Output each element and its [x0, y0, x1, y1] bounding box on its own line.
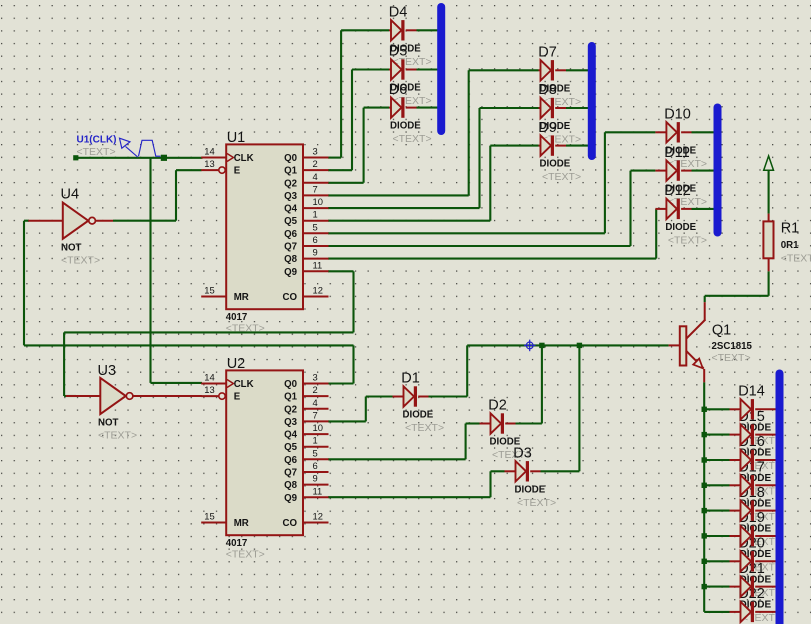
svg-text:<TEXT>: <TEXT> [226, 549, 265, 561]
svg-text:9: 9 [313, 247, 318, 258]
svg-text:13: 13 [204, 158, 214, 169]
svg-text:<TEXT>: <TEXT> [405, 422, 444, 434]
svg-text:DIODE: DIODE [665, 222, 696, 233]
svg-text:10: 10 [313, 422, 323, 433]
svg-text:D10: D10 [664, 107, 691, 123]
svg-text:6: 6 [313, 460, 318, 471]
svg-text:1: 1 [313, 435, 318, 446]
svg-text:13: 13 [204, 384, 214, 395]
svg-text:D4: D4 [389, 5, 408, 21]
svg-text:Q5: Q5 [284, 216, 298, 227]
svg-text:14: 14 [204, 146, 214, 157]
svg-text:Q7: Q7 [284, 468, 297, 479]
svg-text:D14: D14 [738, 384, 765, 400]
svg-text:MR: MR [234, 292, 249, 303]
svg-text:D6: D6 [389, 82, 408, 98]
svg-text:Q4: Q4 [284, 204, 298, 215]
svg-text:U1(CLK): U1(CLK) [77, 135, 117, 146]
svg-text:3: 3 [313, 372, 318, 383]
svg-text:<TEXT>: <TEXT> [98, 430, 137, 442]
svg-text:11: 11 [313, 259, 323, 270]
svg-text:<TEXT>: <TEXT> [226, 323, 265, 335]
svg-text:DIODE: DIODE [390, 121, 421, 132]
svg-text:<TEXT>: <TEXT> [61, 255, 100, 267]
svg-text:<TEXT>: <TEXT> [77, 146, 116, 158]
svg-text:12: 12 [313, 285, 323, 296]
svg-text:Q0: Q0 [284, 379, 297, 390]
svg-text:Q1: Q1 [712, 323, 731, 339]
svg-text:D11: D11 [664, 145, 690, 161]
svg-text:Q1: Q1 [284, 166, 298, 177]
svg-text:U3: U3 [98, 363, 117, 379]
svg-text:4017: 4017 [226, 538, 248, 549]
svg-text:D1: D1 [401, 371, 420, 387]
svg-text:9: 9 [313, 473, 318, 484]
svg-text:5: 5 [313, 221, 318, 232]
svg-text:1: 1 [313, 209, 318, 220]
svg-text:12: 12 [313, 511, 323, 522]
svg-text:4: 4 [313, 171, 318, 182]
svg-text:D2: D2 [488, 398, 507, 414]
svg-text:14: 14 [204, 372, 214, 383]
svg-text:10: 10 [313, 196, 323, 207]
svg-text:4017: 4017 [226, 312, 248, 323]
svg-text:NOT: NOT [61, 243, 82, 254]
svg-text:MR: MR [234, 518, 249, 529]
svg-text:D3: D3 [513, 446, 532, 462]
svg-text:15: 15 [204, 285, 214, 296]
svg-text:7: 7 [313, 409, 318, 420]
svg-text:DIODE: DIODE [515, 484, 546, 495]
svg-text:DIODE: DIODE [403, 410, 434, 421]
svg-text:NOT: NOT [98, 418, 119, 429]
svg-text:Q3: Q3 [284, 191, 298, 202]
svg-text:15: 15 [204, 511, 214, 522]
svg-text:CO: CO [282, 518, 297, 529]
svg-text:DIODE: DIODE [540, 159, 571, 170]
svg-text:<TEXT>: <TEXT> [393, 133, 432, 145]
svg-text:E: E [234, 392, 241, 403]
svg-text:<TEXT>: <TEXT> [781, 253, 811, 265]
svg-text:Q4: Q4 [284, 430, 298, 441]
svg-text:2SC1815: 2SC1815 [712, 341, 753, 352]
svg-text:D12: D12 [664, 183, 691, 199]
svg-text:D5: D5 [389, 44, 408, 60]
svg-text:2: 2 [313, 384, 318, 395]
svg-text:Q2: Q2 [284, 404, 297, 415]
svg-text:Q2: Q2 [284, 178, 297, 189]
svg-text:<TEXT>: <TEXT> [712, 352, 751, 364]
svg-text:2: 2 [313, 158, 318, 169]
svg-text:Q8: Q8 [284, 254, 298, 265]
svg-text:Q3: Q3 [284, 417, 298, 428]
svg-text:<TEXT>: <TEXT> [542, 171, 581, 183]
svg-text:Q9: Q9 [284, 267, 298, 278]
svg-text:6: 6 [313, 234, 318, 245]
svg-text:<TEXT>: <TEXT> [517, 497, 556, 509]
svg-text:<TEXT>: <TEXT> [668, 234, 707, 246]
svg-text:5: 5 [313, 447, 318, 458]
svg-text:CLK: CLK [234, 153, 254, 164]
svg-text:D7: D7 [538, 45, 557, 61]
svg-text:Q6: Q6 [284, 455, 298, 466]
svg-text:E: E [234, 166, 241, 177]
svg-text:CLK: CLK [234, 379, 254, 390]
svg-text:3: 3 [313, 146, 318, 157]
svg-text:Q1: Q1 [284, 392, 298, 403]
svg-text:D9: D9 [538, 120, 557, 136]
svg-text:4: 4 [313, 397, 318, 408]
svg-text:7: 7 [313, 183, 318, 194]
svg-text:U4: U4 [61, 187, 80, 203]
svg-text:Q8: Q8 [284, 480, 298, 491]
svg-text:0R1: 0R1 [781, 240, 799, 251]
svg-text:Q7: Q7 [284, 242, 297, 253]
svg-text:11: 11 [313, 485, 323, 496]
svg-text:Q6: Q6 [284, 229, 298, 240]
svg-text:R1: R1 [781, 221, 800, 237]
svg-text:D8: D8 [538, 82, 557, 98]
svg-text:Q5: Q5 [284, 442, 298, 453]
svg-text:Q0: Q0 [284, 153, 297, 164]
svg-text:CO: CO [282, 292, 297, 303]
svg-text:Q9: Q9 [284, 493, 298, 504]
